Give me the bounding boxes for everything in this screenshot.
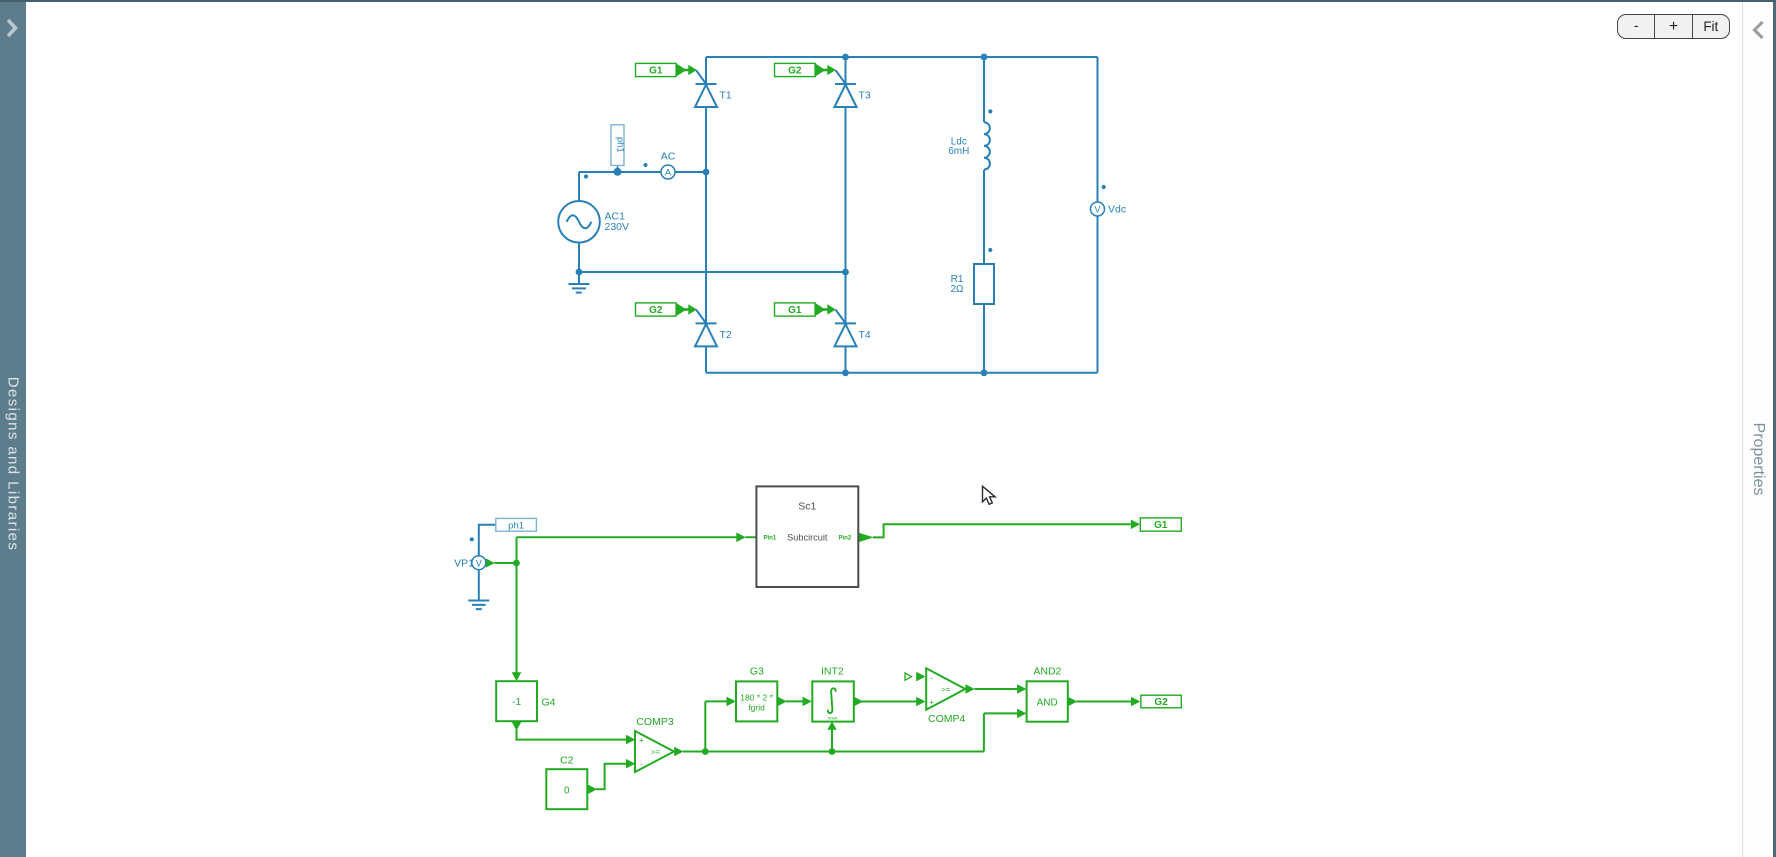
svg-text:230V: 230V (605, 221, 630, 233)
svg-text:2Ω: 2Ω (950, 284, 964, 295)
svg-text:C2: C2 (560, 755, 574, 767)
svg-text:reset: reset (828, 716, 839, 721)
svg-text:Pin1: Pin1 (764, 536, 777, 542)
svg-text:+: + (639, 736, 644, 745)
svg-text:AND2: AND2 (1033, 666, 1061, 678)
svg-text:-: - (930, 674, 933, 683)
svg-text:-: - (640, 760, 643, 769)
svg-text:AND: AND (1037, 697, 1058, 708)
svg-text:G2: G2 (649, 305, 663, 316)
svg-text:Sc1: Sc1 (798, 501, 816, 513)
svg-text:G2: G2 (788, 66, 802, 77)
svg-text:Subcircuit: Subcircuit (787, 533, 828, 543)
svg-text:T1: T1 (720, 90, 732, 102)
svg-text:G1: G1 (1154, 520, 1168, 531)
svg-text:0: 0 (564, 785, 570, 796)
svg-text:Pin2: Pin2 (839, 536, 852, 542)
svg-text:COMP4: COMP4 (928, 713, 966, 725)
svg-text:>=: >= (651, 748, 660, 757)
svg-text:COMP3: COMP3 (636, 716, 674, 728)
svg-text:VP1: VP1 (454, 558, 474, 570)
svg-text:+: + (929, 698, 934, 707)
svg-text:AC: AC (661, 151, 676, 163)
svg-text:V: V (1094, 205, 1100, 215)
svg-text:T3: T3 (859, 90, 871, 102)
svg-text:6mH: 6mH (948, 146, 969, 157)
svg-text:-1: -1 (512, 697, 521, 708)
svg-text:180 * 2 *: 180 * 2 * (740, 693, 773, 703)
svg-text:G1: G1 (788, 305, 802, 316)
svg-text:G2: G2 (1154, 697, 1168, 708)
svg-text:T2: T2 (720, 329, 732, 341)
svg-text:fgrid: fgrid (748, 703, 765, 713)
svg-text:G1: G1 (649, 66, 663, 77)
svg-text:ph1: ph1 (615, 137, 626, 153)
svg-text:G3: G3 (750, 666, 764, 678)
svg-text:INT2: INT2 (821, 666, 844, 678)
svg-text:>=: >= (941, 685, 950, 694)
svg-text:Vdc: Vdc (1108, 204, 1126, 216)
svg-text:ph1: ph1 (508, 520, 524, 531)
svg-text:T4: T4 (859, 329, 871, 341)
svg-text:G4: G4 (542, 697, 556, 709)
svg-text:V: V (476, 558, 482, 568)
svg-text:A: A (665, 168, 672, 179)
